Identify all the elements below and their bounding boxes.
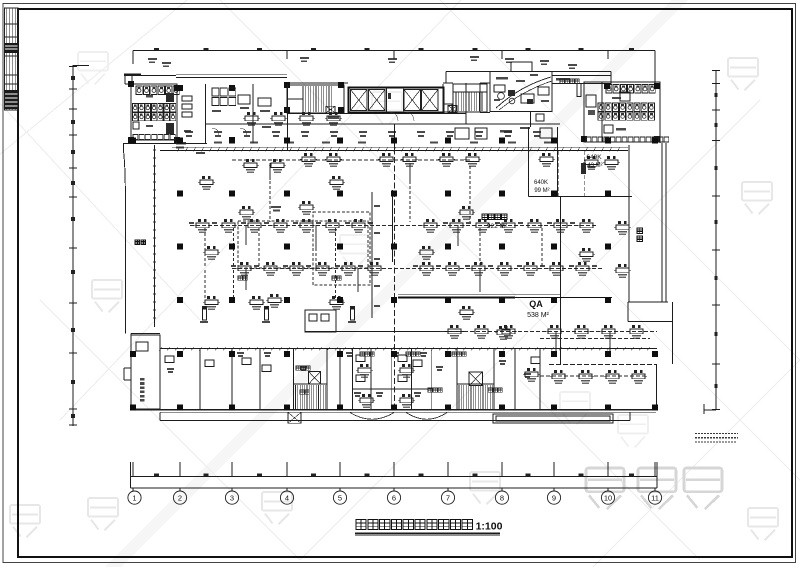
stairwell west — [287, 85, 344, 113]
fan coil row C left units — [242, 159, 259, 173]
AHU duct boxes — [511, 62, 532, 72]
labels above main pipe — [214, 142, 222, 144]
svg-text:7: 7 — [446, 493, 450, 502]
door box stair west — [326, 106, 335, 113]
fan coil row D units — [243, 112, 260, 126]
bottom strip meeting room fittings — [356, 355, 365, 362]
labels below left toilet — [176, 142, 186, 145]
corridor wall below cores — [287, 113, 466, 115]
fan coil row A units — [194, 219, 211, 233]
top wall corridor double — [176, 74, 287, 76]
east wall mid double — [661, 143, 663, 302]
svg-text:4: 4 — [285, 493, 289, 502]
bottom strip fan coils — [356, 364, 373, 378]
fan coil row F units — [550, 370, 567, 384]
svg-text:5: 5 — [338, 493, 342, 502]
west notch — [124, 367, 131, 369]
label pair refrigeration — [271, 206, 281, 208]
pipe loop rectangles centre — [238, 212, 370, 285]
bottom strip mid wall — [352, 388, 431, 390]
AHU dark equipment — [508, 90, 515, 96]
bottom dimension lines — [131, 476, 658, 478]
bottom entrance arcs — [350, 413, 394, 420]
svg-text:922 M²: 922 M² — [487, 223, 508, 230]
elevator lobby walls — [442, 84, 444, 112]
top-left wall cap — [124, 74, 141, 77]
main chilled water pipe — [160, 150, 628, 152]
svg-text:99 M²: 99 M² — [534, 188, 549, 194]
right toilet corner columns — [604, 83, 610, 89]
svg-text:538 M²: 538 M² — [527, 312, 549, 319]
leader labels above building top — [505, 58, 514, 60]
small room x305 — [305, 310, 336, 332]
fan coil row y165 — [232, 159, 470, 161]
elevator door arcs — [390, 112, 398, 120]
elevator lobby label — [328, 117, 339, 119]
fan coil row B units — [236, 262, 253, 276]
fan coil pipe row y268 — [232, 268, 603, 270]
grid bubbles 1-11 — [132, 488, 134, 491]
wall stub below AHU — [529, 112, 531, 128]
left toilet stalls row1 — [136, 86, 142, 95]
bottom dimension leaders and ticks — [132, 462, 134, 477]
left toilet stalls row3 — [133, 113, 138, 121]
top dimension line — [133, 50, 655, 52]
svg-text:8: 8 — [500, 493, 504, 502]
left toilet fittings — [166, 93, 174, 102]
bottom stairs west — [294, 384, 328, 410]
fan coil row E units — [446, 325, 463, 339]
right toilet stalls row3 — [598, 112, 604, 120]
bottom canopy — [493, 414, 613, 423]
changing room fixtures — [212, 88, 219, 96]
bottom exterior terrace line — [160, 420, 630, 422]
right toilet block — [584, 82, 660, 142]
bottom strip top wall hatched — [160, 348, 657, 350]
title underline — [355, 532, 500, 534]
right toilet bottom fixture strip — [586, 137, 669, 142]
vertical riser pipe centre — [394, 124, 396, 149]
top wall step up — [445, 72, 447, 84]
right toilet stalls row1 — [606, 85, 612, 94]
drop stubs from rows — [246, 163, 610, 352]
watermark large text bottom right — [586, 468, 624, 509]
elevator bank — [349, 88, 444, 113]
left toilet stalls row2 — [133, 104, 138, 112]
misc fan coils open area — [238, 206, 255, 220]
top dimension leaders — [132, 51, 134, 65]
vertical wall x629 — [628, 145, 630, 302]
notes text block — [695, 434, 738, 442]
elevator lobby gap — [386, 88, 388, 113]
right toilet fittings — [586, 95, 596, 107]
top wall east section — [446, 71, 611, 73]
svg-text:1: 1 — [132, 493, 136, 502]
top wall centre — [287, 82, 348, 84]
bottom wall double — [131, 409, 658, 411]
west wall lower block — [130, 334, 132, 410]
bottom exterior stair box — [288, 412, 301, 423]
row B unit side tags — [231, 265, 236, 267]
west facade curve and straight wall — [123, 143, 207, 145]
svg-text:2: 2 — [178, 493, 182, 502]
right toilet stalls row2 — [598, 103, 604, 111]
left dimension line — [72, 65, 74, 426]
left toilet block — [131, 84, 177, 140]
wall y331 centre-left — [305, 331, 466, 333]
fan coil pipe row y225 — [190, 225, 598, 227]
svg-text:6: 6 — [392, 493, 396, 502]
fan coil row G units — [583, 156, 600, 170]
west wall toilet block — [130, 84, 132, 140]
fan coil row C units — [300, 153, 317, 167]
corridor small boxes — [455, 128, 469, 139]
svg-text:10: 10 — [604, 493, 612, 502]
stairwell east — [453, 84, 487, 112]
bottom elevator east — [469, 372, 482, 386]
drawing title — [356, 520, 366, 530]
title block dark cells — [5, 43, 19, 53]
bottom elevator west — [309, 372, 321, 385]
watermark logo glyphs — [92, 280, 122, 312]
fan coil rows bottom right — [440, 331, 657, 333]
hanging vertical units — [202, 306, 207, 309]
east wall lower — [656, 364, 658, 410]
door box stair east — [448, 105, 457, 112]
AHU plant room — [490, 72, 552, 112]
svg-text:11: 11 — [651, 493, 659, 502]
left toilet bottom fixture strip — [133, 135, 175, 140]
svg-text:9: 9 — [552, 493, 556, 502]
east wall upper — [659, 82, 661, 143]
stairwell west columns — [284, 82, 290, 88]
vip room left — [131, 335, 160, 409]
vertical pipe x558 dashed — [558, 151, 560, 196]
right dimension line — [715, 70, 717, 410]
label balcony west — [135, 240, 140, 245]
corridor wall lower — [205, 123, 560, 125]
wall y196 right wing — [528, 196, 632, 198]
bottom strip room dividers — [159, 349, 161, 410]
top wall west section — [125, 75, 176, 77]
plant room walls x528 x557 — [528, 127, 530, 197]
inter-row connector pipes — [205, 166, 542, 300]
stair west side wall — [287, 84, 289, 150]
svg-text:1:100: 1:100 — [476, 521, 503, 533]
svg-text:43 M²: 43 M² — [587, 163, 602, 169]
title block strip left — [5, 8, 19, 110]
vertical wall x372 — [371, 192, 373, 318]
structural columns grid — [130, 138, 658, 411]
label freight room vertical — [637, 228, 643, 234]
east step walls — [628, 301, 668, 303]
bottom strip label pairs — [300, 366, 307, 368]
svg-text:640K: 640K — [534, 180, 548, 186]
machine room inner walls — [490, 111, 552, 113]
svg-text:QA: QA — [529, 299, 543, 309]
thick wall y297 — [398, 296, 515, 298]
riser cluster right — [581, 163, 586, 174]
room labels small — [296, 366, 300, 370]
corridor label blobs — [185, 131, 193, 133]
vertical wall x560 — [560, 197, 562, 365]
west inner wall — [154, 145, 156, 327]
row A unit side tags — [189, 222, 194, 224]
svg-text:3: 3 — [230, 493, 234, 502]
bottom stairs east — [457, 384, 494, 410]
label 922 area — [482, 214, 488, 220]
left toilet corner columns — [128, 81, 134, 87]
fan coil right wing verticals — [583, 151, 585, 196]
dashed partition y364 right — [549, 364, 656, 366]
top wall right toilet — [610, 72, 612, 83]
svg-text:640K: 640K — [586, 154, 602, 161]
